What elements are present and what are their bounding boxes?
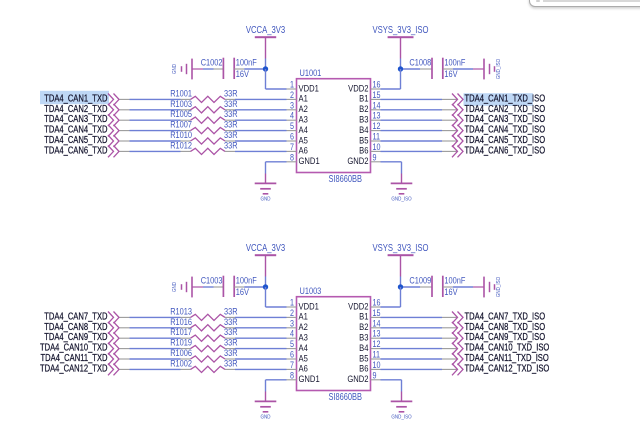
svg-text:A5: A5 <box>299 135 309 146</box>
port TDA4_CAN1_TXD_ISO <box>452 92 545 105</box>
wire GND2 net <box>381 380 402 392</box>
wire VCCA_3V3 stem <box>265 277 267 288</box>
wire TDA4_CAN2_TXD to R1003 <box>120 109 181 111</box>
svg-text:SI8660BB: SI8660BB <box>329 173 363 184</box>
port TDA4_CAN5_TXD <box>44 134 119 147</box>
svg-text:A1: A1 <box>299 311 309 322</box>
svg-text:8: 8 <box>290 370 294 380</box>
svg-text:14: 14 <box>373 100 381 110</box>
svg-text:GND_ISO: GND_ISO <box>496 277 503 297</box>
pin 12 B4 <box>359 121 381 135</box>
pin 13 B3 <box>359 111 381 125</box>
resistor R1005 33R <box>170 108 237 123</box>
IC U1003 SI8660BB <box>297 285 371 402</box>
svg-text:A4: A4 <box>299 342 309 353</box>
IC U1001 SI8660BB <box>297 67 371 184</box>
svg-text:GND: GND <box>261 414 271 421</box>
wire R1010 to pin A5 <box>235 140 287 142</box>
wire pin B3 to port <box>381 119 458 121</box>
svg-text:A6: A6 <box>299 145 309 156</box>
pin 2 A1 <box>287 90 309 104</box>
pin 7 A6 <box>287 360 309 374</box>
svg-text:7: 7 <box>290 360 294 370</box>
svg-text:B3: B3 <box>359 332 369 343</box>
ground GND_ISO <box>391 392 413 421</box>
svg-text:TDA4_CAN12_TXD_ISO: TDA4_CAN12_TXD_ISO <box>465 362 550 373</box>
capacitor C1009 100nF 16V <box>409 275 465 297</box>
pin 13 B3 <box>359 329 381 343</box>
wire TDA4_CAN1_TXD to R1001 <box>120 98 181 100</box>
svg-text:9: 9 <box>373 152 377 162</box>
svg-text:13: 13 <box>373 329 381 339</box>
pin 3 A2 <box>287 100 309 114</box>
svg-text:VDD2: VDD2 <box>348 301 369 312</box>
resistor R1019 33R <box>170 337 237 352</box>
svg-text:B1: B1 <box>359 93 369 104</box>
wire gnd to C1003 <box>203 286 223 288</box>
svg-text:C1009: C1009 <box>409 275 431 286</box>
junction node <box>398 284 403 289</box>
ground GND <box>255 174 277 203</box>
svg-text:13: 13 <box>373 111 381 121</box>
svg-text:B5: B5 <box>359 353 369 364</box>
wire C1002 to power node <box>234 68 265 70</box>
svg-text:100nF: 100nF <box>236 275 257 286</box>
wire pin B2 to port <box>381 327 458 329</box>
svg-text:100nF: 100nF <box>444 275 465 286</box>
port TDA4_CAN5_TXD_ISO <box>452 134 545 147</box>
svg-text:GND: GND <box>172 64 179 74</box>
svg-text:GND_ISO: GND_ISO <box>496 59 503 79</box>
pin 16 VDD2 <box>348 80 381 94</box>
svg-text:GND2: GND2 <box>347 373 368 384</box>
pin 12 B4 <box>359 339 381 353</box>
svg-text:5: 5 <box>290 339 294 349</box>
pin 4 A3 <box>287 111 309 125</box>
svg-text:A3: A3 <box>299 114 309 125</box>
pin 6 A5 <box>287 132 309 146</box>
svg-text:12: 12 <box>373 121 381 131</box>
svg-text:B1: B1 <box>359 311 369 322</box>
pin 9 GND2 <box>347 152 380 166</box>
svg-text:15: 15 <box>373 308 381 318</box>
pin 5 A4 <box>287 339 309 353</box>
svg-text:U1003: U1003 <box>300 285 322 296</box>
wire VDD2 net <box>381 287 401 307</box>
port TDA4_CAN3_TXD_ISO <box>452 113 545 126</box>
wire R1002 to pin A6 <box>235 368 287 370</box>
resistor R1002 33R <box>170 357 237 372</box>
capacitor C1002 100nF 16V <box>201 57 257 79</box>
resistor R1013 33R <box>170 305 237 320</box>
svg-text:9: 9 <box>373 370 377 380</box>
ground GND_ISO <box>391 174 413 203</box>
svg-text:B4: B4 <box>359 342 369 353</box>
pin 4 A3 <box>287 329 309 343</box>
browser popup corner top-right <box>529 0 640 7</box>
svg-text:GND2: GND2 <box>347 155 368 166</box>
svg-text:16: 16 <box>373 298 381 308</box>
svg-text:GND: GND <box>172 282 179 292</box>
svg-text:VSYS_3V3_ISO: VSYS_3V3_ISO <box>373 24 429 35</box>
wire R1017 to pin A3 <box>235 337 287 339</box>
pin 10 B6 <box>359 360 381 374</box>
svg-text:GND: GND <box>261 196 271 203</box>
port TDA4_CAN6_TXD_ISO <box>452 144 545 157</box>
port TDA4_CAN12_TXD <box>40 362 119 375</box>
svg-text:VDD2: VDD2 <box>348 83 369 94</box>
pin 15 B1 <box>359 90 381 104</box>
port TDA4_CAN9_TXD_ISO <box>452 331 545 344</box>
svg-text:A3: A3 <box>299 332 309 343</box>
svg-text:VCCA_3V3: VCCA_3V3 <box>246 24 285 35</box>
port TDA4_CAN3_TXD <box>44 113 119 126</box>
pin 11 B5 <box>359 350 380 364</box>
wire R1003 to pin A2 <box>235 109 287 111</box>
pin 16 VDD2 <box>348 298 381 312</box>
port TDA4_CAN2_TXD <box>44 103 119 116</box>
svg-text:A2: A2 <box>299 103 309 114</box>
svg-text:8: 8 <box>290 152 294 162</box>
power VSYS_3V3_ISO <box>373 242 429 276</box>
svg-text:3: 3 <box>290 100 294 110</box>
svg-text:TDA4_CAN6_TXD: TDA4_CAN6_TXD <box>44 144 107 155</box>
wire R1006 to pin A5 <box>235 358 287 360</box>
wire pin B1 to port <box>381 316 458 318</box>
resistor R1017 33R <box>170 326 237 341</box>
pin 7 A6 <box>287 142 309 156</box>
resistor R1001 33R <box>170 87 237 102</box>
svg-text:U1001: U1001 <box>300 67 322 78</box>
wire C1008 to gnd_iso <box>443 68 473 70</box>
svg-text:VDD1: VDD1 <box>299 83 320 94</box>
port TDA4_CAN7_TXD <box>44 310 119 323</box>
pin 6 A5 <box>287 350 309 364</box>
pin 2 A1 <box>287 308 309 322</box>
svg-text:11: 11 <box>373 132 381 142</box>
svg-text:B5: B5 <box>359 135 369 146</box>
svg-text:GND1: GND1 <box>299 373 320 384</box>
wire pin B4 to port <box>381 348 458 350</box>
pin 14 B2 <box>359 318 381 332</box>
svg-text:6: 6 <box>290 132 294 142</box>
svg-text:33R: 33R <box>224 357 238 368</box>
svg-text:A4: A4 <box>299 124 309 135</box>
svg-text:100nF: 100nF <box>444 57 465 68</box>
power VSYS_3V3_ISO <box>373 24 429 58</box>
port TDA4_CAN6_TXD <box>44 144 119 157</box>
svg-text:11: 11 <box>373 350 381 360</box>
svg-text:A6: A6 <box>299 363 309 374</box>
wire TDA4_CAN7_TXD to R1013 <box>120 316 181 318</box>
resistor R1012 33R <box>170 139 237 154</box>
svg-text:B4: B4 <box>359 124 369 135</box>
ground (decoupling C1003) <box>172 277 203 298</box>
wire C1003 to power node <box>234 286 265 288</box>
svg-text:A2: A2 <box>299 321 309 332</box>
port TDA4_CAN12_TXD_ISO <box>452 362 549 375</box>
wire GND2 net <box>381 162 402 174</box>
wire pin B1 to port <box>381 98 458 100</box>
pin 15 B1 <box>359 308 381 322</box>
pin 8 GND1 <box>287 370 320 384</box>
wire pin B2 to port <box>381 109 458 111</box>
svg-text:C1008: C1008 <box>409 57 431 68</box>
wire pin B4 to port <box>381 130 458 132</box>
port TDA4_CAN7_TXD_ISO <box>452 310 545 323</box>
pin 10 B6 <box>359 142 381 156</box>
svg-text:C1002: C1002 <box>201 57 223 68</box>
port TDA4_CAN9_TXD <box>44 331 119 344</box>
svg-text:GND1: GND1 <box>299 155 320 166</box>
ground GND <box>255 392 277 421</box>
junction node <box>263 66 268 71</box>
wire power node to C1009 <box>401 286 433 288</box>
svg-text:3: 3 <box>290 318 294 328</box>
wire pin B6 to port <box>381 150 458 152</box>
wire pin B3 to port <box>381 337 458 339</box>
wire R1013 to pin A1 <box>235 316 287 318</box>
svg-text:R1002: R1002 <box>170 357 192 368</box>
port TDA4_CAN4_TXD <box>44 124 119 137</box>
port TDA4_CAN4_TXD_ISO <box>452 124 545 137</box>
junction node <box>398 66 403 71</box>
svg-text:2: 2 <box>290 90 294 100</box>
resistor R1003 33R <box>170 98 237 113</box>
wire R1001 to pin A1 <box>235 98 287 100</box>
svg-text:1: 1 <box>290 80 294 90</box>
resistor R1007 33R <box>170 119 237 134</box>
resistor R1006 33R <box>170 347 237 362</box>
port TDA4_CAN8_TXD_ISO <box>452 321 545 334</box>
pin 3 A2 <box>287 318 309 332</box>
port TDA4_CAN10_TXD_ISO <box>452 342 549 355</box>
svg-text:C1003: C1003 <box>201 275 223 286</box>
wire TDA4_CAN8_TXD to R1016 <box>120 327 181 329</box>
wire VDD1 net <box>266 287 287 307</box>
port TDA4_CAN8_TXD <box>44 321 119 334</box>
svg-text:10: 10 <box>373 360 381 370</box>
svg-text:6: 6 <box>290 350 294 360</box>
wire pin B6 to port <box>381 368 458 370</box>
wire VDD2 net <box>381 69 401 89</box>
ground GND_ISO (cap) <box>473 277 502 298</box>
wire TDA4_CAN9_TXD to R1017 <box>120 337 181 339</box>
pin 8 GND1 <box>287 152 320 166</box>
svg-text:10: 10 <box>373 142 381 152</box>
svg-text:16: 16 <box>373 80 381 90</box>
pin 1 VDD1 <box>287 298 320 312</box>
wire R1012 to pin A6 <box>235 150 287 152</box>
wire R1016 to pin A2 <box>235 327 287 329</box>
port TDA4_CAN10_TXD <box>40 342 119 355</box>
svg-text:VCCA_3V3: VCCA_3V3 <box>246 242 285 253</box>
pin 9 GND2 <box>347 370 380 384</box>
capacitor C1003 100nF 16V <box>201 275 257 297</box>
wire R1007 to pin A4 <box>235 130 287 132</box>
svg-text:R1012: R1012 <box>170 139 192 150</box>
power VCCA_3V3 <box>246 24 285 58</box>
wire VSYS_3V3_ISO stem <box>400 277 402 288</box>
pin 14 B2 <box>359 100 381 114</box>
svg-text:5: 5 <box>290 121 294 131</box>
wire R1019 to pin A4 <box>235 348 287 350</box>
svg-text:SI8660BB: SI8660BB <box>329 391 363 402</box>
wire TDA4_CAN12_TXD to R1002 <box>120 368 181 370</box>
wire VDD1 net <box>266 69 287 89</box>
pin 1 VDD1 <box>287 80 320 94</box>
svg-text:2: 2 <box>290 308 294 318</box>
popup inner hairline <box>543 0 640 2</box>
wire VSYS_3V3_ISO stem <box>400 59 402 70</box>
svg-text:14: 14 <box>373 318 381 328</box>
svg-text:15: 15 <box>373 90 381 100</box>
svg-text:TDA4_CAN12_TXD: TDA4_CAN12_TXD <box>40 362 108 373</box>
wire VCCA_3V3 stem <box>265 59 267 70</box>
resistor R1010 33R <box>170 129 237 144</box>
port TDA4_CAN2_TXD_ISO <box>452 103 545 116</box>
popup inner mark <box>536 0 540 2</box>
junction node <box>263 284 268 289</box>
svg-text:B2: B2 <box>359 321 369 332</box>
wire C1009 to gnd_iso <box>443 286 473 288</box>
port TDA4_CAN11_TXD <box>41 352 119 365</box>
wire R1005 to pin A3 <box>235 119 287 121</box>
wire TDA4_CAN6_TXD to R1012 <box>120 150 181 152</box>
svg-text:1: 1 <box>290 298 294 308</box>
svg-text:4: 4 <box>290 111 294 121</box>
svg-text:100nF: 100nF <box>236 57 257 68</box>
port TDA4_CAN11_TXD_ISO <box>452 352 549 365</box>
svg-text:B6: B6 <box>359 363 369 374</box>
wire TDA4_CAN11_TXD to R1006 <box>120 358 181 360</box>
svg-text:TDA4_CAN6_TXD_ISO: TDA4_CAN6_TXD_ISO <box>465 144 546 155</box>
wire GND1 net <box>266 162 287 174</box>
svg-text:VDD1: VDD1 <box>299 301 320 312</box>
wire TDA4_CAN3_TXD to R1005 <box>120 119 181 121</box>
pin 11 B5 <box>359 132 380 146</box>
svg-text:4: 4 <box>290 329 294 339</box>
wire pin B5 to port <box>381 358 458 360</box>
svg-text:VSYS_3V3_ISO: VSYS_3V3_ISO <box>373 242 429 253</box>
wire TDA4_CAN10_TXD to R1019 <box>120 348 181 350</box>
svg-text:B6: B6 <box>359 145 369 156</box>
wire GND1 net <box>266 380 287 392</box>
svg-text:A1: A1 <box>299 93 309 104</box>
svg-text:12: 12 <box>373 339 381 349</box>
wire TDA4_CAN4_TXD to R1007 <box>120 130 181 132</box>
wire gnd to C1002 <box>203 68 223 70</box>
svg-text:GND_ISO: GND_ISO <box>391 196 411 203</box>
svg-text:GND_ISO: GND_ISO <box>391 414 411 421</box>
svg-text:7: 7 <box>290 142 294 152</box>
ground (decoupling C1002) <box>172 59 203 80</box>
wire pin B5 to port <box>381 140 458 142</box>
svg-text:B2: B2 <box>359 103 369 114</box>
svg-text:B3: B3 <box>359 114 369 125</box>
pin 5 A4 <box>287 121 309 135</box>
ground GND_ISO (cap) <box>473 59 502 80</box>
resistor R1016 33R <box>170 316 237 331</box>
power VCCA_3V3 <box>246 242 285 276</box>
wire power node to C1008 <box>401 68 433 70</box>
wire TDA4_CAN5_TXD to R1010 <box>120 140 181 142</box>
svg-text:A5: A5 <box>299 353 309 364</box>
capacitor C1008 100nF 16V <box>409 57 465 79</box>
port TDA4_CAN1_TXD <box>40 91 119 106</box>
svg-text:33R: 33R <box>224 139 238 150</box>
